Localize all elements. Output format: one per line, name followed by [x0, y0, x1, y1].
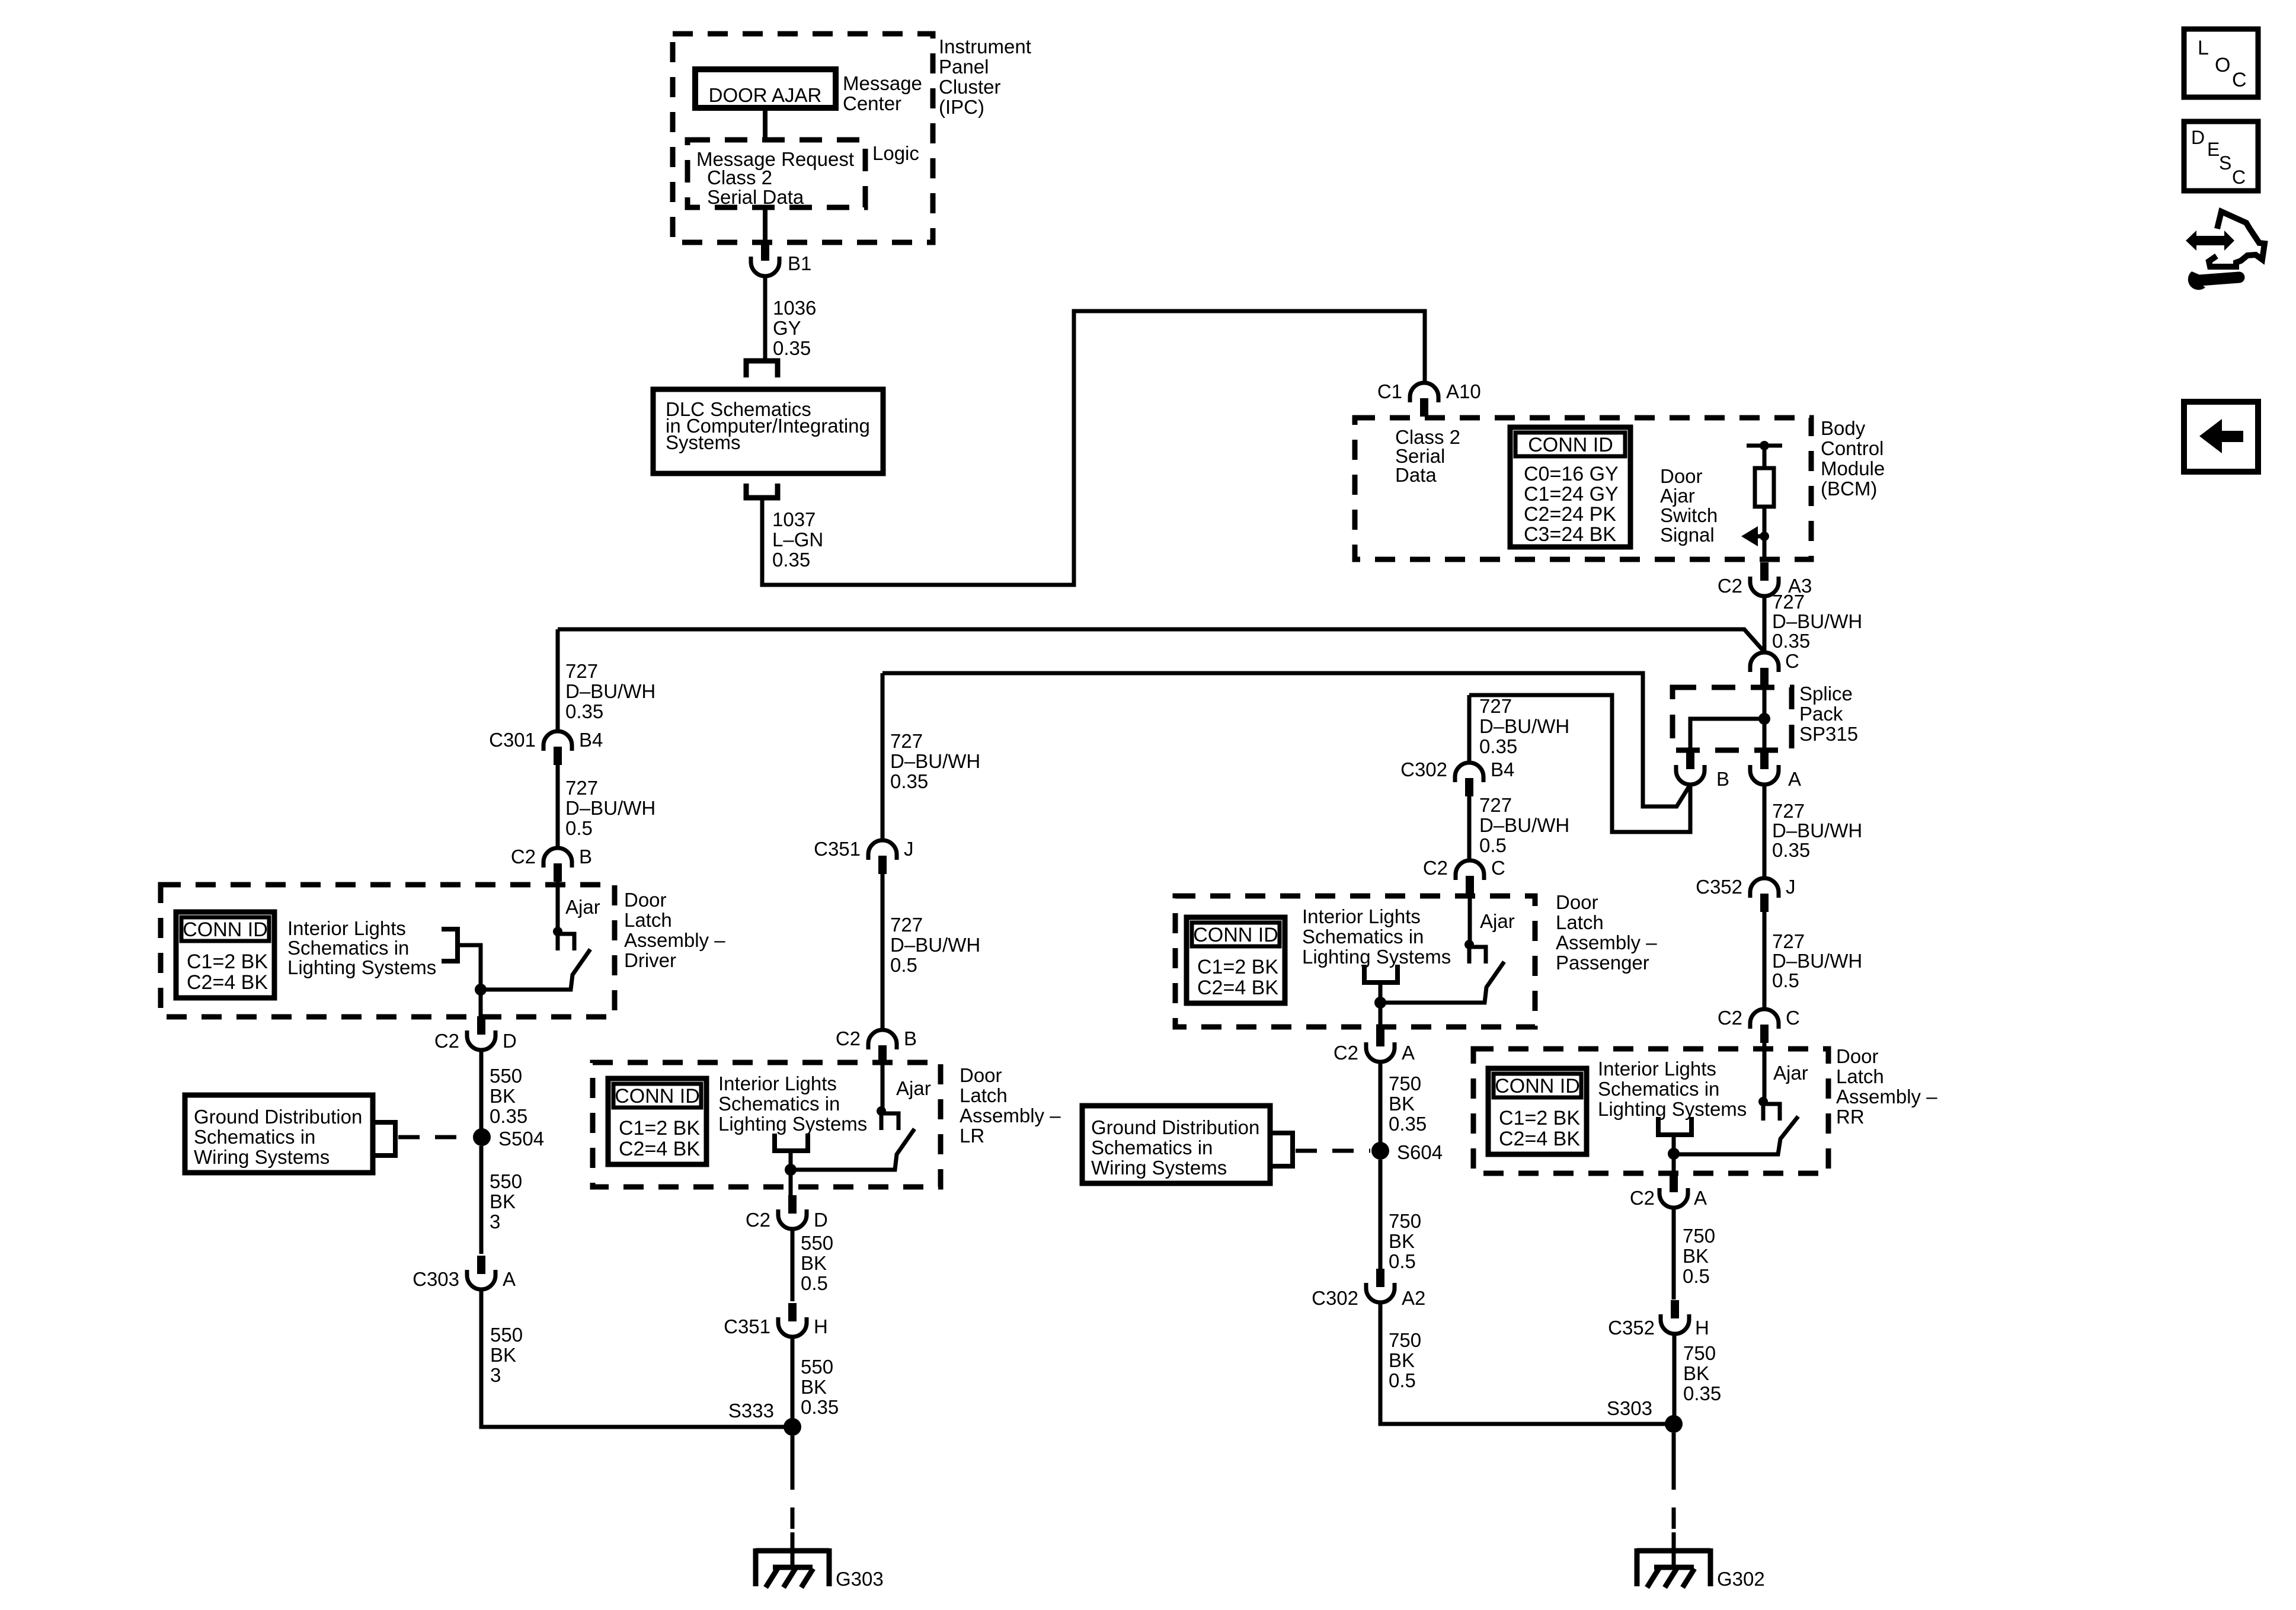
svg-text:D–BU/WH: D–BU/WH — [890, 934, 980, 956]
connector C2 B (LR door latch) — [868, 1030, 897, 1049]
svg-text:Ajar: Ajar — [565, 896, 600, 918]
svg-text:A: A — [1788, 768, 1801, 790]
connector C2 C (passenger door latch) — [1456, 860, 1484, 880]
svg-text:Ground Distribution: Ground Distribution — [1091, 1116, 1259, 1138]
svg-text:0.35: 0.35 — [890, 770, 928, 792]
svg-text:CONN ID: CONN ID — [1193, 924, 1278, 946]
svg-text:(BCM): (BCM) — [1821, 478, 1877, 500]
svg-text:Interior Lights: Interior Lights — [287, 917, 406, 939]
svg-text:Logic: Logic — [872, 142, 919, 164]
svg-text:0.5: 0.5 — [565, 817, 593, 839]
connector C2 A (RR) — [1670, 1174, 1678, 1192]
ground distribution box (passenger) — [1082, 1106, 1270, 1183]
svg-text:1036: 1036 — [773, 297, 816, 319]
svg-text:A: A — [1402, 1042, 1415, 1064]
svg-text:BK: BK — [801, 1376, 827, 1398]
svg-text:Interior Lights: Interior Lights — [1598, 1058, 1716, 1080]
svg-text:550: 550 — [801, 1232, 833, 1254]
ground distribution bracket (driver) — [373, 1122, 395, 1156]
svg-text:C2=4 BK: C2=4 BK — [1197, 977, 1278, 999]
svg-text:Interior Lights: Interior Lights — [1302, 905, 1421, 927]
svg-text:Interior Lights: Interior Lights — [718, 1073, 837, 1094]
splice S604 — [1371, 1142, 1389, 1160]
svg-text:750: 750 — [1683, 1225, 1715, 1247]
svg-text:A: A — [503, 1268, 516, 1290]
svg-text:550: 550 — [490, 1324, 523, 1346]
svg-text:C2: C2 — [1334, 1042, 1358, 1064]
svg-text:BK: BK — [1389, 1230, 1415, 1252]
svg-text:Latch: Latch — [960, 1084, 1008, 1106]
svg-text:Module: Module — [1821, 457, 1885, 479]
wire 727 D-BU/WH 0.5 (RR) — [1763, 912, 1767, 1009]
svg-text:BK: BK — [1389, 1349, 1415, 1371]
svg-text:0.5: 0.5 — [1683, 1265, 1710, 1287]
svg-text:Lighting Systems: Lighting Systems — [1302, 946, 1451, 968]
ground distribution box (driver) — [185, 1095, 373, 1173]
svg-text:C2: C2 — [836, 1028, 861, 1049]
svg-text:750: 750 — [1683, 1342, 1716, 1364]
svg-text:H: H — [814, 1315, 828, 1337]
svg-text:CONN ID: CONN ID — [1495, 1075, 1580, 1097]
wire 550 BK 0.5 (LR) — [791, 1229, 795, 1301]
switch common junction dot (RR) — [1668, 1148, 1680, 1160]
svg-text:BK: BK — [1389, 1093, 1415, 1115]
door latch assembly LR dashed box — [593, 1062, 941, 1187]
svg-text:SP315: SP315 — [1799, 723, 1858, 745]
interior lights bracket (RR) — [1658, 1117, 1691, 1135]
wire logic box to connector B1 — [763, 207, 768, 243]
svg-text:Pack: Pack — [1799, 703, 1843, 725]
svg-text:BK: BK — [1683, 1245, 1709, 1267]
svg-text:D–BU/WH: D–BU/WH — [1479, 814, 1569, 836]
connector C (to splice pack) — [1750, 652, 1779, 672]
svg-text:C351: C351 — [814, 838, 861, 860]
wire 727 D-BU/WH 0.5 (driver) — [556, 765, 560, 848]
svg-text:B1: B1 — [788, 252, 811, 274]
splice terminal B — [1686, 751, 1694, 769]
svg-text:D–BU/WH: D–BU/WH — [1772, 950, 1862, 972]
svg-text:0.35: 0.35 — [1479, 735, 1517, 757]
svg-text:0.5: 0.5 — [890, 954, 917, 976]
LR CONN ID table — [608, 1078, 706, 1164]
dashed link to S604 — [1296, 1149, 1370, 1153]
body control module (BCM) dashed box — [1355, 418, 1811, 559]
connector C352 J — [1750, 878, 1779, 898]
svg-text:750: 750 — [1389, 1329, 1421, 1351]
svg-text:0.35: 0.35 — [1683, 1382, 1721, 1404]
svg-text:Class 2: Class 2 — [707, 167, 772, 188]
wire 550 BK 3 (lower) to S333 — [481, 1289, 792, 1427]
connector C2 D (driver) — [477, 1016, 485, 1035]
wire 750 BK 0.5 (RR) — [1672, 1208, 1676, 1299]
svg-text:Signal: Signal — [1660, 524, 1715, 546]
door latch assembly passenger dashed box — [1175, 896, 1535, 1027]
svg-text:0.5: 0.5 — [1479, 834, 1507, 856]
door latch assembly RR dashed box — [1473, 1049, 1828, 1173]
ground distribution bracket (passenger) — [1270, 1133, 1293, 1166]
svg-text:727: 727 — [565, 660, 598, 682]
svg-text:0.35: 0.35 — [565, 700, 603, 722]
wire down to C301 — [556, 629, 560, 731]
svg-text:C352: C352 — [1696, 876, 1742, 898]
svg-text:3: 3 — [490, 1364, 501, 1386]
svg-text:727: 727 — [890, 730, 923, 752]
svg-text:S: S — [2219, 152, 2231, 174]
svg-text:550: 550 — [490, 1170, 522, 1192]
svg-text:Assembly –: Assembly – — [1836, 1086, 1937, 1108]
wire splice to A — [1763, 719, 1767, 750]
svg-text:CONN ID: CONN ID — [615, 1085, 700, 1108]
svg-text:L: L — [2198, 37, 2209, 59]
message request logic dashed box — [687, 140, 865, 207]
wire 1037 L-GN 0.35 from DLC to BCM C1 A10 — [762, 311, 1425, 585]
connector C303 A — [477, 1256, 485, 1274]
svg-text:Schematics in: Schematics in — [287, 937, 409, 959]
svg-text:0.35: 0.35 — [773, 337, 811, 359]
svg-text:Body: Body — [1821, 417, 1866, 439]
svg-text:S333: S333 — [728, 1400, 774, 1422]
svg-text:Door: Door — [1836, 1045, 1879, 1067]
svg-text:RR: RR — [1836, 1106, 1865, 1128]
svg-text:C1: C1 — [1377, 380, 1402, 402]
svg-text:Schematics in: Schematics in — [1302, 926, 1424, 948]
switch common junction dot (driver) — [475, 984, 487, 996]
svg-text:Lighting Systems: Lighting Systems — [287, 956, 436, 978]
svg-text:0.35: 0.35 — [801, 1396, 839, 1418]
svg-text:Assembly –: Assembly – — [960, 1105, 1061, 1126]
svg-text:D–BU/WH: D–BU/WH — [1479, 715, 1569, 737]
svg-text:G302: G302 — [1717, 1568, 1765, 1590]
wire splice to B — [1690, 719, 1764, 750]
connector C302 B4 — [1455, 763, 1483, 782]
svg-text:C2: C2 — [1718, 575, 1742, 597]
switch common junction dot (passenger) — [1374, 997, 1386, 1009]
svg-text:DOOR AJAR: DOOR AJAR — [709, 84, 822, 106]
wire to C2 A (passenger) — [1379, 1003, 1383, 1030]
connector C352 H — [1671, 1300, 1679, 1318]
svg-text:727: 727 — [1479, 695, 1512, 717]
svg-text:0.5: 0.5 — [801, 1272, 828, 1294]
svg-text:Ground Distribution: Ground Distribution — [194, 1106, 362, 1128]
svg-text:C302: C302 — [1400, 758, 1447, 780]
svg-text:J: J — [1786, 876, 1796, 898]
svg-text:B: B — [1716, 768, 1729, 790]
wire 750 BK 0.35 to S303 — [1673, 1334, 1677, 1424]
svg-text:Passenger: Passenger — [1556, 952, 1649, 974]
connector C2 C (RR door latch) — [1750, 1009, 1779, 1029]
connector C351 J — [868, 840, 897, 860]
svg-text:Center: Center — [843, 92, 901, 114]
svg-text:S604: S604 — [1397, 1141, 1443, 1163]
svg-text:C1=24 GY: C1=24 GY — [1524, 483, 1619, 505]
svg-text:Schematics in: Schematics in — [718, 1093, 840, 1115]
svg-text:550: 550 — [490, 1065, 522, 1087]
switch common junction dot (LR) — [785, 1164, 797, 1176]
DESC icon box — [2184, 121, 2258, 191]
svg-text:A2: A2 — [1402, 1287, 1425, 1309]
svg-text:BK: BK — [490, 1344, 516, 1366]
connector C302 A2 — [1376, 1269, 1384, 1287]
svg-text:L–GN: L–GN — [772, 529, 823, 550]
svg-text:727: 727 — [1479, 794, 1512, 816]
svg-text:C: C — [1785, 650, 1799, 672]
svg-text:0.35: 0.35 — [1389, 1113, 1427, 1135]
svg-text:A10: A10 — [1446, 380, 1481, 402]
svg-text:LR: LR — [960, 1125, 984, 1147]
svg-text:GY: GY — [773, 317, 801, 339]
svg-text:(IPC): (IPC) — [939, 96, 984, 118]
interior lights bracket (driver) — [442, 929, 458, 961]
connector C2 A (passenger) — [1376, 1028, 1384, 1046]
svg-text:S303: S303 — [1607, 1397, 1652, 1419]
svg-text:C302: C302 — [1312, 1287, 1358, 1309]
svg-text:Latch: Latch — [624, 909, 672, 931]
svg-text:727: 727 — [1772, 800, 1805, 822]
wire 750 BK 0.5 (passenger lower) — [1379, 1160, 1383, 1270]
wire S333 to ground G303 — [791, 1436, 795, 1468]
BCM internal pull-up resistor — [1747, 444, 1782, 448]
connector C2 D (LR) — [788, 1195, 797, 1214]
wire 727 D-BU/WH 0.5 (passenger) — [1467, 796, 1472, 860]
svg-text:727: 727 — [1772, 930, 1805, 952]
svg-text:C2: C2 — [1423, 857, 1448, 879]
svg-text:C301: C301 — [489, 729, 536, 751]
passenger CONN ID table — [1187, 917, 1285, 1003]
svg-text:C: C — [1786, 1007, 1800, 1029]
svg-text:Latch: Latch — [1836, 1065, 1884, 1087]
svg-text:C2: C2 — [1630, 1187, 1655, 1209]
svg-text:S504: S504 — [498, 1128, 544, 1150]
svg-text:C: C — [2232, 69, 2247, 91]
wire from C301 branch joining at C — [558, 629, 1763, 651]
svg-text:C352: C352 — [1608, 1317, 1655, 1339]
svg-text:0.35: 0.35 — [772, 549, 810, 571]
svg-text:C1=2 BK: C1=2 BK — [1197, 956, 1278, 978]
svg-text:D: D — [2191, 127, 2205, 148]
back arrow icon box — [2184, 402, 2258, 472]
svg-text:Driver: Driver — [624, 949, 676, 971]
wire bracket to switch common (LR) — [789, 1151, 793, 1170]
wire bracket to switch common (RR) — [1672, 1135, 1676, 1154]
svg-text:0.35: 0.35 — [490, 1105, 527, 1127]
svg-text:727: 727 — [890, 914, 923, 936]
svg-text:BK: BK — [801, 1252, 827, 1274]
svg-text:C2: C2 — [434, 1030, 459, 1052]
wire B to C302 branch — [1469, 695, 1690, 832]
svg-text:Message: Message — [843, 72, 922, 94]
svg-text:Control: Control — [1821, 437, 1884, 459]
wire 750 BK 0.35 (passenger) — [1379, 1062, 1383, 1151]
svg-text:750: 750 — [1389, 1210, 1421, 1232]
svg-text:Door: Door — [1660, 465, 1703, 487]
svg-text:Door: Door — [1556, 891, 1598, 913]
wire 727 D-BU/WH 0.5 (LR) — [881, 874, 885, 1030]
wire 1036 GY 0.35 — [763, 276, 768, 359]
svg-text:C2: C2 — [1718, 1007, 1742, 1029]
svg-text:Lighting Systems: Lighting Systems — [1598, 1098, 1747, 1120]
connector C1 A10 (BCM) — [1410, 383, 1438, 402]
wire B to C351 branch (via diagonal) — [882, 673, 1690, 806]
svg-text:Panel: Panel — [939, 56, 989, 78]
svg-text:CONN ID: CONN ID — [183, 918, 268, 941]
svg-text:Data: Data — [1395, 464, 1437, 486]
wire 550 BK 0.35 to S333 — [791, 1337, 795, 1427]
svg-text:C351: C351 — [724, 1315, 770, 1337]
svg-text:Ajar: Ajar — [1660, 485, 1695, 507]
svg-text:Wiring Systems: Wiring Systems — [1091, 1157, 1227, 1179]
splice S333 — [784, 1418, 801, 1436]
svg-text:B4: B4 — [579, 729, 603, 751]
svg-text:Lighting Systems: Lighting Systems — [718, 1113, 867, 1135]
svg-text:G303: G303 — [836, 1568, 884, 1590]
svg-text:Switch: Switch — [1660, 504, 1718, 526]
splice S303 — [1665, 1415, 1683, 1433]
svg-text:0.5: 0.5 — [1772, 969, 1799, 991]
svg-text:C2=24 PK: C2=24 PK — [1524, 503, 1616, 526]
splice terminal A — [1760, 751, 1769, 769]
RR CONN ID table — [1488, 1068, 1587, 1154]
svg-text:D–BU/WH: D–BU/WH — [565, 680, 655, 702]
svg-text:CONN ID: CONN ID — [1528, 434, 1613, 456]
svg-text:C: C — [1491, 857, 1505, 879]
wire to C2 A (RR) — [1672, 1154, 1676, 1174]
inline connector below DLC box — [746, 484, 778, 498]
svg-text:E: E — [2207, 139, 2220, 160]
svg-text:Instrument: Instrument — [939, 36, 1031, 57]
ground G303 — [756, 1548, 829, 1554]
svg-text:Assembly –: Assembly – — [624, 929, 725, 951]
svg-text:0.35: 0.35 — [1772, 630, 1810, 652]
svg-text:D: D — [503, 1030, 517, 1052]
svg-text:B: B — [579, 846, 592, 868]
svg-text:727: 727 — [1772, 591, 1805, 613]
svg-text:Ajar: Ajar — [1773, 1062, 1808, 1084]
svg-text:D–BU/WH: D–BU/WH — [565, 797, 655, 819]
splice pack SP315 dashed box — [1673, 687, 1792, 750]
connector C351 H — [788, 1303, 797, 1321]
svg-text:750: 750 — [1389, 1073, 1421, 1094]
svg-text:727: 727 — [565, 777, 598, 799]
interior lights bracket (LR) — [775, 1134, 808, 1151]
svg-text:Serial Data: Serial Data — [707, 186, 804, 208]
svg-text:Door: Door — [624, 889, 667, 911]
svg-text:H: H — [1695, 1317, 1709, 1339]
instrument panel cluster (IPC) dashed box — [673, 34, 933, 242]
svg-text:D: D — [814, 1209, 828, 1231]
svg-text:C3=24 BK: C3=24 BK — [1524, 523, 1616, 546]
svg-text:Systems: Systems — [666, 431, 741, 453]
svg-text:Wiring Systems: Wiring Systems — [194, 1146, 330, 1168]
wire DOOR AJAR to logic box — [763, 108, 768, 140]
driver CONN ID table — [176, 912, 274, 998]
svg-text:Splice: Splice — [1799, 683, 1853, 705]
svg-text:Latch: Latch — [1556, 911, 1604, 933]
svg-text:A: A — [1694, 1187, 1707, 1209]
svg-text:B4: B4 — [1491, 758, 1514, 780]
svg-text:Ajar: Ajar — [896, 1077, 931, 1099]
wire A to C352 J — [1763, 785, 1767, 878]
DOOR AJAR message indicator box — [695, 69, 836, 108]
svg-text:D–BU/WH: D–BU/WH — [1772, 610, 1862, 632]
svg-text:Schematics in: Schematics in — [194, 1126, 315, 1148]
svg-text:D–BU/WH: D–BU/WH — [1772, 820, 1862, 841]
svg-text:B: B — [904, 1028, 917, 1049]
svg-text:C0=16 GY: C0=16 GY — [1524, 463, 1619, 485]
wire bracket to switch common (passenger) — [1379, 982, 1383, 1003]
svg-text:C1=2 BK: C1=2 BK — [1499, 1107, 1580, 1129]
interior lights bracket (passenger) — [1364, 965, 1398, 982]
DLC Schematics box — [653, 389, 883, 473]
svg-text:C2: C2 — [511, 846, 536, 868]
splice S504 — [473, 1128, 491, 1146]
svg-text:Schematics in: Schematics in — [1091, 1137, 1213, 1158]
svg-text:0.35: 0.35 — [1772, 839, 1810, 861]
ground G302 — [1637, 1548, 1710, 1554]
svg-text:D–BU/WH: D–BU/WH — [890, 750, 980, 772]
svg-text:BK: BK — [490, 1085, 516, 1107]
svg-text:BK: BK — [1683, 1362, 1709, 1384]
wire S303 to ground G302 — [1672, 1433, 1676, 1468]
svg-text:1037: 1037 — [772, 508, 816, 530]
svg-text:C2: C2 — [746, 1209, 770, 1231]
wire down to C351 — [881, 673, 885, 840]
svg-text:Ajar: Ajar — [1480, 910, 1515, 932]
svg-text:C: C — [2232, 167, 2246, 188]
svg-text:0.5: 0.5 — [1389, 1250, 1416, 1272]
wire 550 BK 3 (upper) — [479, 1146, 484, 1254]
wire 727 D-BU/WH 0.35 from BCM — [1763, 596, 1767, 652]
BCM signal arrow — [1760, 532, 1769, 541]
svg-text:Schematics in: Schematics in — [1598, 1078, 1719, 1100]
connector C2 B (driver door latch) — [543, 848, 572, 868]
BCM CONN ID table — [1510, 427, 1630, 547]
svg-text:C303: C303 — [412, 1268, 459, 1290]
svg-text:C2=4 BK: C2=4 BK — [619, 1138, 700, 1160]
wire 550 BK 0.35 (driver) — [479, 1050, 484, 1137]
dashed link to S504 — [398, 1135, 472, 1140]
door latch assembly driver dashed box — [161, 885, 615, 1017]
svg-text:C2=4 BK: C2=4 BK — [1499, 1128, 1580, 1150]
LOC icon box — [2184, 29, 2258, 97]
splice junction node — [1758, 713, 1770, 725]
svg-text:O: O — [2215, 54, 2230, 76]
wire down to C302 B4 — [1467, 695, 1472, 763]
service information icon — [2186, 231, 2234, 251]
svg-text:C2=4 BK: C2=4 BK — [187, 971, 268, 994]
svg-text:3: 3 — [490, 1211, 500, 1233]
svg-text:0.5: 0.5 — [1389, 1369, 1416, 1391]
wire to C2 D (driver) — [479, 990, 483, 1019]
connector B1 (IPC) — [761, 242, 769, 261]
connector C2 A3 (BCM) — [1760, 562, 1769, 581]
svg-text:550: 550 — [801, 1356, 833, 1378]
wire to C2 D (LR) — [789, 1170, 793, 1198]
svg-text:Door: Door — [960, 1064, 1002, 1086]
svg-text:J: J — [904, 838, 914, 860]
svg-text:BK: BK — [490, 1190, 516, 1212]
connector C301 B4 — [543, 731, 572, 751]
svg-text:Assembly –: Assembly – — [1556, 932, 1657, 953]
inline connector above DLC box — [746, 361, 778, 377]
svg-text:Cluster: Cluster — [939, 76, 1001, 98]
svg-text:C1=2 BK: C1=2 BK — [619, 1117, 700, 1140]
svg-text:C1=2 BK: C1=2 BK — [187, 950, 268, 973]
wire bracket to switch common (driver) — [458, 945, 481, 990]
